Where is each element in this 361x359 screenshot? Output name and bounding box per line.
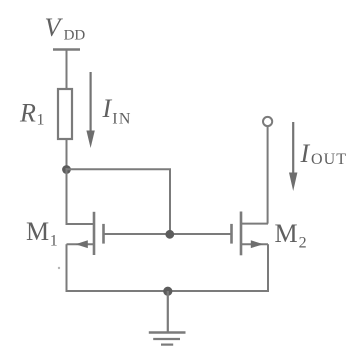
svg-text:2: 2 bbox=[299, 235, 307, 252]
ground bbox=[149, 291, 186, 345]
current arrow I_IN bbox=[86, 72, 94, 148]
wire M1 drain up bbox=[66, 168, 68, 225]
label M2 bbox=[275, 219, 307, 252]
wire R1 bottom to M1 drain bbox=[66, 139, 68, 171]
svg-text:DD: DD bbox=[64, 28, 86, 44]
node B junction dot on gate bus bbox=[165, 230, 174, 239]
wire M1 source to ground rail bbox=[66, 244, 68, 292]
label VDD bbox=[45, 13, 86, 44]
wire M2 source to ground rail bbox=[267, 244, 269, 292]
label R1 bbox=[19, 99, 45, 129]
ground rail wire bbox=[66, 290, 270, 292]
svg-text:R: R bbox=[19, 99, 36, 128]
svg-text:1: 1 bbox=[37, 112, 45, 129]
svg-text:I: I bbox=[300, 139, 311, 168]
label I_IN bbox=[102, 94, 132, 128]
svg-text:IN: IN bbox=[112, 111, 131, 128]
wire VDD bar to R1 top bbox=[66, 50, 68, 91]
svg-text:M: M bbox=[275, 219, 298, 248]
VDD supply bar bbox=[53, 48, 80, 51]
wire M2 drain to output terminal bbox=[267, 127, 269, 224]
svg-text:OUT: OUT bbox=[311, 151, 347, 168]
label I_OUT bbox=[300, 139, 348, 168]
node A junction dot bbox=[62, 165, 71, 174]
svg-text:V: V bbox=[45, 13, 64, 42]
transistor M1 bbox=[67, 212, 104, 255]
current arrow I_OUT bbox=[289, 122, 297, 191]
svg-text:M: M bbox=[26, 217, 49, 246]
label M1 bbox=[26, 217, 58, 250]
wire node A to gate column bbox=[67, 169, 171, 234]
resistor R1 bbox=[58, 89, 72, 139]
output terminal open circle bbox=[263, 117, 272, 126]
svg-text:I: I bbox=[102, 94, 113, 123]
node C junction dot on ground rail bbox=[163, 287, 172, 296]
wire gate bus M1 to M2 bbox=[104, 233, 232, 235]
printing speck bbox=[58, 267, 60, 269]
svg-text:1: 1 bbox=[50, 233, 58, 250]
transistor M2 bbox=[232, 212, 269, 256]
